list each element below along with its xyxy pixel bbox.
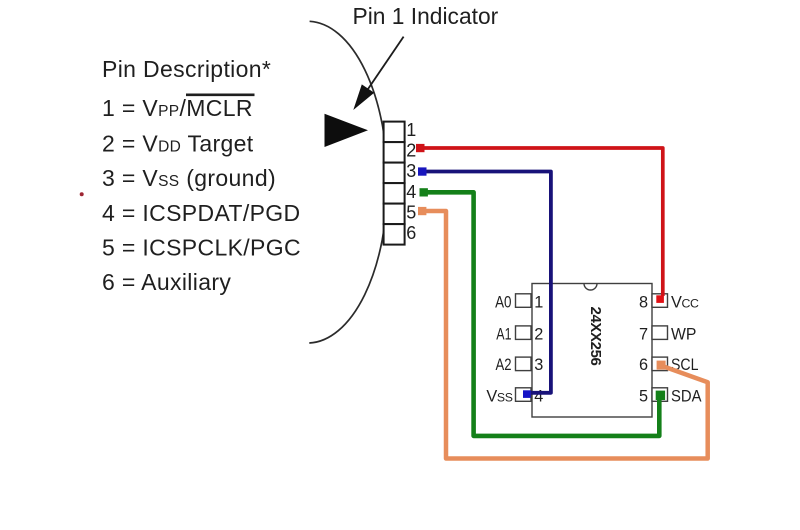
pin 1 marker triangle [325, 114, 369, 147]
svg-text:1 = VPP/MCLR: 1 = VPP/MCLR [102, 95, 253, 121]
terminal square J1 pin3 [418, 167, 427, 175]
svg-text:6 = Auxiliary: 6 = Auxiliary [102, 269, 231, 295]
U1 pin 8 box [652, 294, 668, 308]
terminal square U1 pin5 [656, 391, 665, 400]
svg-text:7: 7 [639, 326, 648, 344]
svg-text:4: 4 [534, 388, 543, 406]
svg-text:Pin 1 Indicator: Pin 1 Indicator [353, 3, 499, 29]
U1 pin 6 box [652, 357, 668, 371]
svg-text:8: 8 [639, 293, 648, 311]
svg-text:6: 6 [639, 356, 648, 374]
svg-text:VSS: VSS [486, 388, 512, 406]
svg-text:2 = VDD Target: 2 = VDD Target [102, 130, 254, 156]
svg-text:A2: A2 [496, 356, 512, 374]
connector J1 6-pin header [384, 122, 405, 245]
wire VDD (red): J1 pin2 to U1 VCC [416, 144, 664, 303]
terminal square J1 pin5 [418, 207, 426, 215]
svg-text:4: 4 [406, 182, 416, 202]
svg-text:5: 5 [639, 388, 648, 406]
svg-text:24XX256: 24XX256 [587, 307, 604, 366]
svg-text:4 = ICSPDAT/PGD: 4 = ICSPDAT/PGD [102, 200, 300, 226]
terminal square U1 pin8 [656, 295, 664, 303]
wire ICSPDAT (green): J1 pin4 to U1 SDA [420, 188, 666, 436]
svg-text:1: 1 [406, 120, 416, 140]
stray red dot [80, 192, 84, 196]
svg-text:SDA: SDA [671, 388, 702, 406]
svg-text:5 = ICSPCLK/PGC: 5 = ICSPCLK/PGC [102, 234, 301, 260]
U1 pin 7 box [652, 326, 668, 340]
U1 pin 4 box [516, 388, 532, 402]
U1 pin 3 box [516, 357, 532, 371]
svg-text:2: 2 [406, 141, 416, 161]
terminal square U1 pin6 [657, 361, 666, 370]
svg-text:3 = VSS (ground): 3 = VSS (ground) [102, 165, 276, 191]
svg-text:2: 2 [534, 326, 543, 344]
terminal square J1 pin2 [416, 144, 425, 152]
svg-text:A1: A1 [496, 326, 511, 344]
svg-text:WP: WP [671, 326, 696, 344]
wire VSS (blue): J1 pin3 to U1 VSS [418, 167, 551, 398]
svg-text:A0: A0 [495, 293, 511, 311]
pin 1 indicator arrow [353, 37, 403, 110]
U1 pin 5 box [652, 388, 668, 402]
wire ICSPCLK (orange): J1 pin5 to U1 SCL [418, 207, 708, 459]
terminal square J1 pin4 [420, 188, 428, 196]
svg-text:3: 3 [406, 161, 416, 181]
svg-text:Pin Description*: Pin Description* [102, 56, 271, 82]
svg-text:3: 3 [534, 356, 543, 374]
U1 pin 2 box [516, 326, 532, 340]
U1 pin 1 box [516, 294, 532, 308]
svg-text:VCC: VCC [671, 293, 699, 311]
svg-text:6: 6 [406, 223, 416, 243]
terminal square U1 pin4 [523, 390, 531, 398]
legend line 1: VPP/MCLR [102, 95, 255, 121]
PICkit body arc [309, 21, 387, 343]
svg-text:5: 5 [406, 202, 416, 222]
chip U1 24XX256 body [532, 284, 652, 418]
svg-text:1: 1 [534, 293, 543, 311]
